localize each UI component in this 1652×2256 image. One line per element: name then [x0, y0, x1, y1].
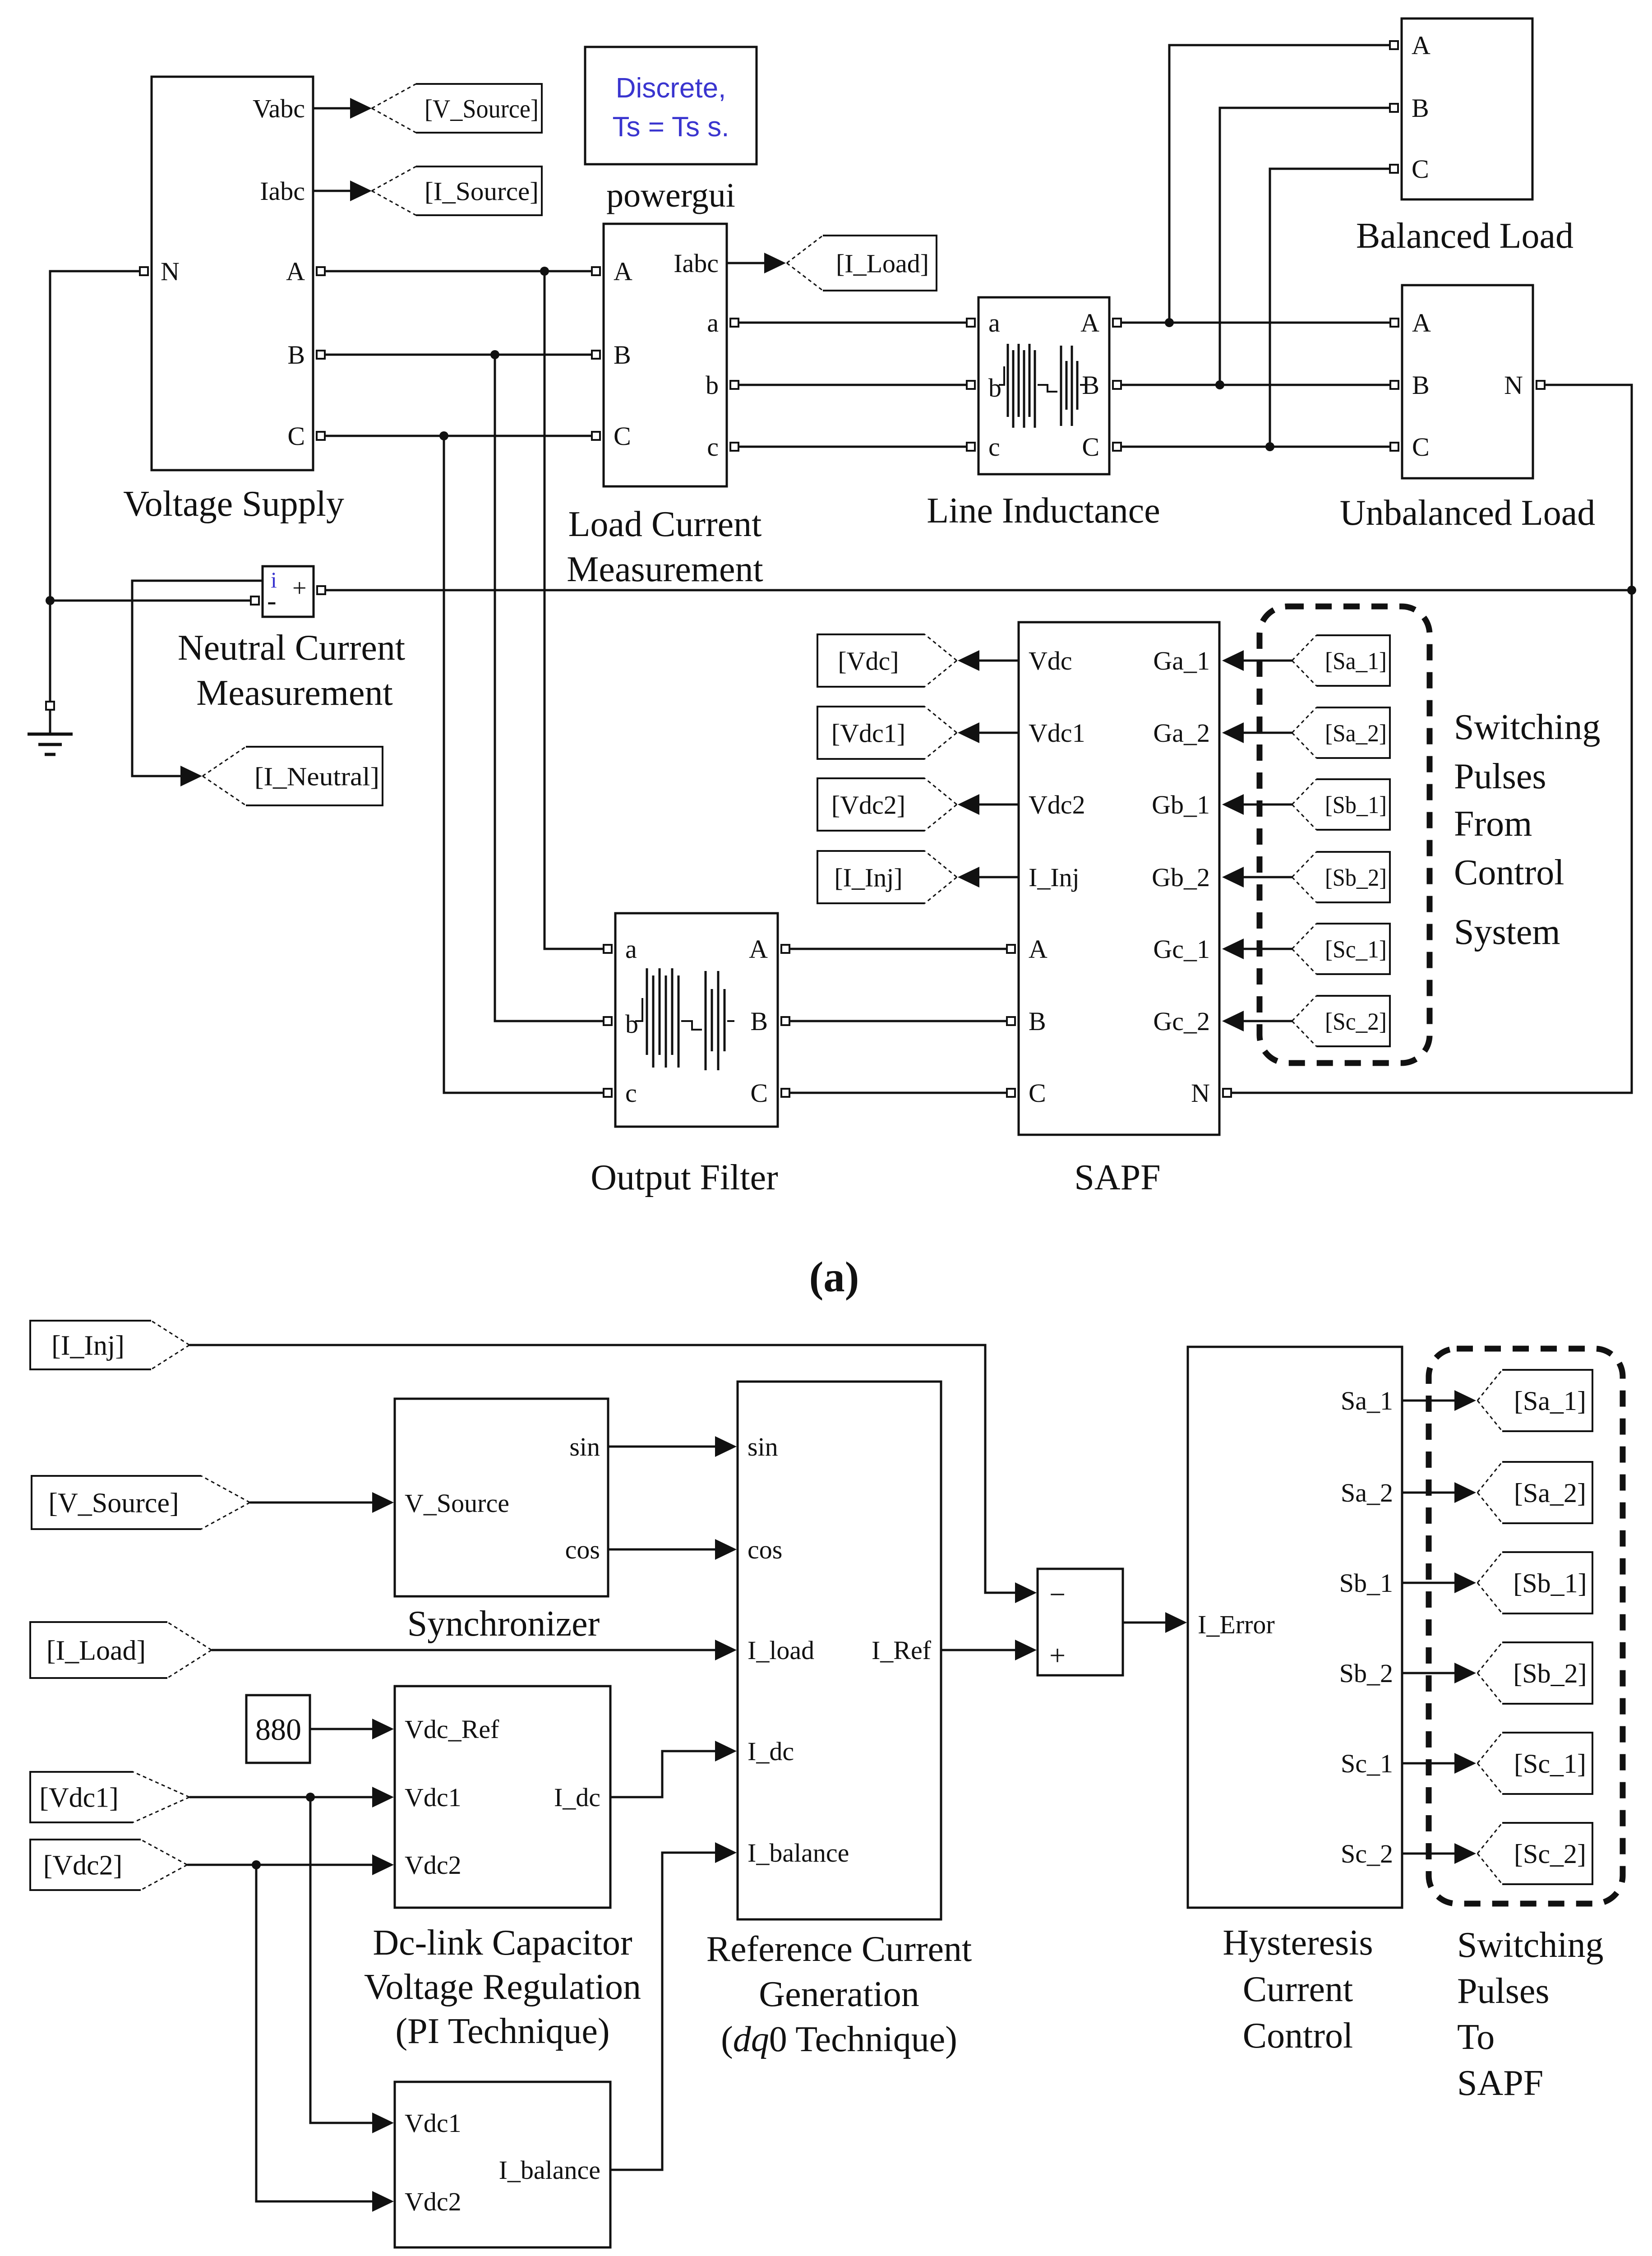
svg-text:c: c [988, 432, 1000, 462]
svg-text:[Vdc1]: [Vdc1] [831, 718, 905, 748]
wire neutral return vertical (Unbalanced.N down to SAPF.N) [1231, 385, 1632, 1093]
wire tag [Sb_1] to SAPF gate [1222, 794, 1292, 815]
wire OF.C to SAPF.C [789, 1092, 1007, 1094]
svg-text:Measurement: Measurement [196, 673, 392, 713]
svg-text:Vdc2: Vdc2 [405, 2187, 461, 2216]
svg-text:C: C [1412, 154, 1429, 184]
svg-text:Dc-link Capacitor: Dc-link Capacitor [373, 1923, 632, 1963]
from tag [Sb_1] [1292, 779, 1390, 830]
wire 880 to Vdc_Ref [310, 1719, 394, 1739]
wire net B (VS.B to LCM.B) [325, 354, 592, 356]
wire OF.A to SAPF.A [789, 948, 1007, 950]
block Load Current Measurement [592, 224, 738, 486]
junction net C2 [1265, 442, 1274, 451]
label Hysteresis Current Control [1223, 1923, 1373, 2056]
from tag [I_Inj] (b) [30, 1321, 189, 1369]
wire tag [Sc_2] to SAPF gate [1222, 1011, 1292, 1031]
wire tag [Sa_2] to SAPF gate [1222, 722, 1292, 743]
wire Hysteresis Sb_2 to tag [1402, 1663, 1476, 1683]
svg-text:a: a [707, 308, 719, 337]
svg-text:Reference Current: Reference Current [706, 1929, 972, 1969]
svg-text:[Sb_2]: [Sb_2] [1513, 1659, 1587, 1688]
svg-text:c: c [707, 432, 719, 462]
svg-text:C: C [614, 421, 631, 451]
junction net C [439, 431, 448, 440]
junction neutral net at minus branch [46, 596, 55, 605]
svg-text:Ts = Ts s.: Ts = Ts s. [613, 111, 729, 143]
junction neutral return [1627, 586, 1636, 595]
svg-text:Load Current: Load Current [568, 504, 762, 544]
wire Hysteresis Sa_1 to tag [1402, 1390, 1476, 1411]
svg-text:Control: Control [1243, 2016, 1353, 2056]
from tag [Vdc1] (b) [30, 1772, 189, 1822]
svg-text:880: 880 [255, 1712, 301, 1747]
label Output Filter [591, 1158, 778, 1197]
wire Hysteresis Sc_2 to tag [1402, 1843, 1476, 1864]
svg-text:Iabc: Iabc [674, 249, 719, 278]
wire NCM i output to I_Neutral tag [132, 581, 263, 786]
svg-text:Output Filter: Output Filter [591, 1158, 778, 1197]
svg-text:Sb_2: Sb_2 [1339, 1659, 1393, 1688]
wire net B2 (LI.B to Unbalanced.B) [1121, 384, 1390, 386]
svg-text:[Sc_1]: [Sc_1] [1325, 936, 1387, 963]
goto tag [Sc_1] (b) [1477, 1733, 1592, 1794]
wire neutral branch to NCM minus [50, 600, 251, 602]
junction Vdc1 net [306, 1793, 315, 1802]
svg-text:Vdc1: Vdc1 [1029, 718, 1085, 748]
junction net A2 [1165, 318, 1174, 327]
svg-text:I_Inj: I_Inj [1029, 863, 1080, 892]
svg-text:B: B [614, 340, 631, 370]
svg-text:[Sa_2]: [Sa_2] [1325, 720, 1387, 747]
wire Hysteresis Sc_1 to tag [1402, 1753, 1476, 1774]
wire net b (LCM.b to LI.b) [738, 384, 967, 386]
svg-text:+: + [1049, 1639, 1066, 1671]
svg-text:Sa_2: Sa_2 [1341, 1478, 1393, 1507]
svg-text:[Sa_1]: [Sa_1] [1325, 647, 1387, 675]
label powergui [606, 176, 735, 214]
goto tag [I_Inj] [817, 851, 957, 903]
svg-text:Vdc2: Vdc2 [1029, 790, 1085, 819]
svg-text:C: C [750, 1078, 768, 1108]
svg-text:[I_Load]: [I_Load] [836, 249, 929, 278]
svg-text:[Vdc1]: [Vdc1] [39, 1783, 119, 1813]
svg-text:sin: sin [748, 1432, 778, 1461]
wire net C (VS.C to LCM.C) [325, 435, 592, 437]
wire net B2 branch up to Balanced B [1220, 108, 1390, 385]
svg-text:Measurement: Measurement [567, 550, 763, 589]
wire Synchronizer sin to RCG sin [608, 1436, 737, 1457]
ground [28, 702, 73, 754]
goto tag [Sc_2] (b) [1477, 1823, 1592, 1884]
svg-text:−: − [1049, 1578, 1066, 1610]
wire Vabc to V_Source tag [313, 98, 372, 119]
svg-text:Switching: Switching [1457, 1925, 1603, 1965]
label Neutral Current Measurement [178, 628, 405, 713]
svg-text:[Sc_2]: [Sc_2] [1325, 1008, 1387, 1035]
svg-text:Voltage Regulation: Voltage Regulation [364, 1967, 641, 2007]
svg-text:C: C [287, 421, 305, 451]
wire [I_Inj] to subtract minus [189, 1345, 1037, 1603]
svg-text:I_balance: I_balance [748, 1838, 849, 1868]
block Reference Current Generation [738, 1382, 941, 1919]
svg-text:Gc_2: Gc_2 [1153, 1007, 1210, 1036]
svg-text:[Sc_1]: [Sc_1] [1514, 1749, 1586, 1779]
label Split Capacitor Voltage Balancing (PI Technique) [338, 2254, 674, 2256]
svg-text:Switching: Switching [1454, 707, 1600, 747]
block Output Filter [604, 913, 789, 1127]
svg-text:Vdc: Vdc [1029, 646, 1072, 675]
svg-text:Generation: Generation [759, 1974, 919, 2014]
svg-text:N: N [161, 257, 180, 286]
wire net A (VS.A to LCM.A) [325, 270, 592, 273]
svg-text:a: a [625, 934, 637, 964]
label Balanced Load [1356, 216, 1574, 256]
svg-text:Sc_2: Sc_2 [1341, 1839, 1393, 1868]
svg-text:Vdc1: Vdc1 [405, 1783, 461, 1812]
wire tag [Sa_1] to SAPF gate [1222, 650, 1292, 671]
svg-text:A: A [749, 934, 768, 964]
svg-text:Sc_1: Sc_1 [1341, 1749, 1393, 1778]
wire net C branch down to Output Filter c [444, 436, 604, 1093]
svg-text:Gc_1: Gc_1 [1153, 934, 1210, 964]
label Unbalanced Load [1340, 493, 1595, 533]
wire SAPF.I_Inj to tag [958, 867, 1019, 888]
svg-text:From: From [1454, 804, 1532, 844]
label Switching Pulses To SAPF [1457, 1925, 1603, 2103]
wire Split I_balance to RCG I_balance [610, 1842, 737, 2170]
label Line Inductance [927, 491, 1160, 531]
svg-text:(a): (a) [809, 1253, 859, 1301]
svg-text:B: B [1412, 93, 1429, 123]
label Synchronizer [407, 1604, 600, 1644]
dashed box Switching Pulses To SAPF [1429, 1349, 1623, 1904]
wire RCG I_Ref to subtract plus [941, 1640, 1037, 1660]
svg-text:I_dc: I_dc [748, 1737, 794, 1766]
svg-text:I_balance: I_balance [499, 2155, 600, 2185]
svg-text:c: c [625, 1078, 637, 1108]
label Reference Current Generation (dq0 Technique) [706, 1929, 972, 2059]
svg-text:Sb_1: Sb_1 [1339, 1568, 1393, 1598]
sum block (I_Inj minus I_Ref) [1038, 1569, 1123, 1675]
svg-text:cos: cos [748, 1535, 782, 1564]
svg-text:[I_Neutral]: [I_Neutral] [254, 762, 379, 791]
svg-text:[I_Inj]: [I_Inj] [834, 863, 902, 892]
svg-text:Iabc: Iabc [260, 176, 305, 206]
block Unbalanced Load [1390, 285, 1545, 478]
svg-text:-: - [267, 586, 277, 616]
svg-text:Vabc: Vabc [253, 94, 305, 123]
wire net A branch down to Output Filter a [545, 271, 604, 949]
wire net B branch down to Output Filter b [495, 355, 604, 1021]
wire OF.B to SAPF.B [789, 1020, 1007, 1022]
wire Vdc2 branch down to Split Capacitor [256, 1865, 394, 2212]
junction net B2 [1215, 380, 1224, 389]
svg-text:I_load: I_load [748, 1636, 814, 1665]
svg-text:[V_Source]: [V_Source] [425, 94, 539, 123]
svg-text:C: C [1082, 432, 1099, 462]
wire Hysteresis Sb_1 to tag [1402, 1572, 1476, 1593]
svg-text:C: C [1029, 1078, 1046, 1108]
block Voltage Supply (three-phase source subsystem) [140, 77, 325, 470]
from tag [Sa_2] [1292, 707, 1390, 758]
svg-text:Voltage Supply: Voltage Supply [123, 484, 344, 524]
svg-text:cos: cos [565, 1535, 600, 1564]
wire [V_Source] to Synchronizer [250, 1492, 394, 1513]
svg-text:+: + [292, 574, 307, 602]
svg-text:a: a [988, 308, 1000, 337]
svg-text:SAPF: SAPF [1074, 1158, 1160, 1197]
goto tag [Vdc2] [817, 778, 957, 831]
svg-text:System: System [1454, 912, 1560, 952]
from tag [Sc_2] [1292, 996, 1390, 1046]
svg-text:[Vdc2]: [Vdc2] [43, 1850, 123, 1881]
wire Vdc1 branch down to Split Capacitor [310, 1797, 394, 2133]
svg-text:A: A [1080, 308, 1099, 337]
goto tag [I_Neutral] [203, 747, 383, 805]
block Hysteresis Current Control [1188, 1347, 1402, 1908]
svg-text:[Vdc]: [Vdc] [838, 646, 899, 675]
svg-text:Synchronizer: Synchronizer [407, 1604, 600, 1644]
label Dc-link Capacitor Voltage Regulation (PI Technique) [364, 1923, 641, 2051]
wire net A2 branch up to Balanced A [1169, 45, 1390, 323]
svg-text:(PI Technique): (PI Technique) [396, 2011, 610, 2051]
svg-text:[Sb_1]: [Sb_1] [1513, 1568, 1587, 1598]
svg-text:Hysteresis: Hysteresis [1223, 1923, 1373, 1963]
svg-text:b: b [988, 373, 1001, 402]
svg-text:(dq0 Technique): (dq0 Technique) [721, 2020, 957, 2059]
svg-text:C: C [1412, 432, 1430, 462]
goto tag [Sb_1] (b) [1477, 1552, 1592, 1613]
svg-text:To: To [1457, 2017, 1495, 2057]
caption (a) [809, 1253, 859, 1301]
wire SAPF.Vdc to tag [958, 650, 1019, 671]
svg-text:Neutral Current: Neutral Current [178, 628, 405, 668]
block powergui (Discrete, Ts = Ts s.) [585, 47, 757, 164]
svg-text:I_Error: I_Error [1198, 1610, 1275, 1639]
svg-text:[Sa_2]: [Sa_2] [1514, 1478, 1586, 1508]
block Neutral Current Measurement (current sensor i,+,-) [251, 566, 325, 617]
from tag [V_Source] (b) [32, 1476, 250, 1529]
svg-text:[I_Load]: [I_Load] [46, 1636, 146, 1666]
wire [Vdc2] to DC-link Vdc2 [187, 1854, 394, 1875]
svg-text:[Sb_1]: [Sb_1] [1325, 791, 1387, 818]
svg-text:[Sb_2]: [Sb_2] [1325, 864, 1387, 891]
svg-text:Current: Current [1243, 1969, 1353, 2009]
svg-text:N: N [1191, 1078, 1210, 1108]
svg-text:Discrete,: Discrete, [616, 73, 726, 104]
svg-text:I_Ref: I_Ref [872, 1636, 932, 1665]
wire [Vdc1] to DC-link Vdc1 [189, 1787, 394, 1808]
svg-text:Pulses: Pulses [1454, 757, 1546, 796]
goto tag [I_Load] [787, 236, 937, 291]
icon three-phase inductor (Output Filter) [635, 968, 734, 1070]
svg-text:[V_Source]: [V_Source] [48, 1488, 179, 1519]
svg-text:N: N [1504, 370, 1523, 400]
svg-text:Vdc1: Vdc1 [405, 2108, 461, 2138]
block Line Inductance [967, 297, 1121, 474]
svg-text:Balanced Load: Balanced Load [1356, 216, 1574, 256]
block Split Capacitor Voltage Balancing [395, 2082, 610, 2247]
svg-text:powergui: powergui [606, 176, 735, 214]
svg-text:[I_Source]: [I_Source] [425, 176, 539, 206]
goto tag [V_Source] [372, 84, 542, 133]
svg-text:[Sc_2]: [Sc_2] [1514, 1839, 1586, 1869]
svg-text:Vdc_Ref: Vdc_Ref [405, 1715, 499, 1744]
svg-text:I_dc: I_dc [554, 1783, 600, 1812]
goto tag [I_Source] [372, 166, 542, 215]
wire net A2 (LI.A to Unbalanced.A) [1121, 322, 1390, 324]
svg-text:B: B [750, 1007, 768, 1036]
svg-text:A: A [1412, 308, 1431, 337]
wire Iabc to I_Source tag [313, 180, 372, 201]
svg-text:A: A [1029, 934, 1047, 964]
from tag [I_Load] (b) [30, 1622, 212, 1678]
junction Vdc2 net [252, 1860, 261, 1869]
junction net B [490, 350, 499, 359]
svg-text:[Sa_1]: [Sa_1] [1514, 1386, 1586, 1416]
block Dc-link Capacitor Voltage Regulation [395, 1686, 610, 1908]
wire net C2 branch up to Balanced C [1270, 169, 1390, 447]
goto tag [Sb_2] (b) [1477, 1642, 1592, 1704]
svg-text:Control: Control [1454, 853, 1564, 892]
wire net C2 (LI.C to Unbalanced.C) [1121, 446, 1390, 448]
constant 880 [246, 1695, 310, 1763]
wire SAPF.Vdc1 to tag [958, 722, 1019, 743]
svg-text:A: A [1412, 31, 1431, 60]
svg-text:Ga_2: Ga_2 [1153, 718, 1210, 748]
block Balanced Load [1390, 18, 1532, 199]
svg-text:Vdc2: Vdc2 [405, 1850, 461, 1880]
svg-text:Split Capacitor Voltage: Split Capacitor Voltage [338, 2254, 674, 2256]
label Switching Pulses From Control System [1454, 707, 1600, 952]
svg-text:Pulses: Pulses [1457, 1971, 1550, 2011]
goto tag [Sa_1] (b) [1477, 1370, 1592, 1431]
svg-text:Unbalanced Load: Unbalanced Load [1340, 493, 1595, 533]
from tag [Sc_1] [1292, 924, 1390, 974]
wire NCM plus to neutral return bus [325, 589, 1632, 592]
label SAPF [1074, 1158, 1160, 1197]
svg-text:V_Source: V_Source [405, 1489, 509, 1518]
dashed box Switching Pulses From Control System [1260, 606, 1430, 1063]
wire tag [Sc_1] to SAPF gate [1222, 938, 1292, 959]
wire net c (LCM.c to LI.c) [738, 446, 967, 448]
goto tag [Sa_2] (b) [1477, 1462, 1592, 1523]
svg-text:b: b [625, 1009, 638, 1039]
wire Synchronizer cos to RCG cos [608, 1539, 737, 1560]
from tag [Sb_2] [1292, 852, 1390, 902]
wire Hysteresis Sa_2 to tag [1402, 1482, 1476, 1503]
wire SAPF.Vdc2 to tag [958, 794, 1019, 815]
svg-text:sin: sin [569, 1432, 600, 1461]
svg-text:B: B [287, 340, 305, 370]
junction net A [540, 267, 549, 276]
svg-text:[Vdc2]: [Vdc2] [831, 790, 905, 819]
wire [I_Load] to RCG I_load [212, 1640, 737, 1660]
svg-text:Ga_1: Ga_1 [1153, 646, 1210, 675]
goto tag [Vdc] [817, 634, 957, 687]
svg-text:Gb_1: Gb_1 [1152, 790, 1210, 819]
wire tag [Sb_2] to SAPF gate [1222, 867, 1292, 888]
block SAPF [1007, 622, 1231, 1135]
goto tag [Vdc1] [817, 707, 957, 759]
svg-text:Sa_1: Sa_1 [1341, 1386, 1393, 1415]
from tag [Vdc2] (b) [30, 1840, 187, 1890]
block Synchronizer [395, 1399, 608, 1596]
svg-text:A: A [286, 257, 305, 286]
label Load Current Measurement [567, 504, 763, 589]
svg-text:A: A [614, 257, 632, 286]
svg-text:B: B [1412, 370, 1430, 400]
icon three-phase inductor (Line Inductance) [999, 344, 1087, 428]
svg-text:[I_Inj]: [I_Inj] [51, 1331, 125, 1361]
wire neutral net from VS.N down the left side [50, 271, 140, 702]
wire Iabc out to I_Load tag [727, 253, 786, 273]
from tag [Sa_1] [1292, 635, 1390, 686]
svg-text:SAPF: SAPF [1457, 2063, 1543, 2103]
wire net a (LCM.a to LI.a) [738, 322, 967, 324]
label Voltage Supply [123, 484, 344, 524]
wire DC-link I_dc to RCG I_dc [610, 1741, 737, 1797]
wire sum to Hysteresis I_Error [1123, 1612, 1187, 1633]
svg-text:Gb_2: Gb_2 [1152, 863, 1210, 892]
svg-text:B: B [1029, 1007, 1046, 1036]
svg-text:b: b [706, 370, 719, 400]
svg-text:Line Inductance: Line Inductance [927, 491, 1160, 531]
